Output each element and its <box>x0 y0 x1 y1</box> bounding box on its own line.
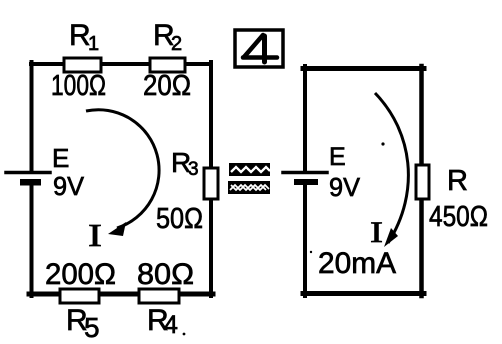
svg-text:1: 1 <box>88 33 99 55</box>
svg-text:3: 3 <box>188 159 199 180</box>
svg-text:5: 5 <box>84 312 100 343</box>
svg-text:E: E <box>329 143 346 171</box>
svg-text:80Ω: 80Ω <box>137 258 194 291</box>
svg-text:450Ω: 450Ω <box>429 201 488 233</box>
svg-text:9V: 9V <box>53 171 85 201</box>
svg-text:200Ω: 200Ω <box>45 258 116 291</box>
svg-text:50Ω: 50Ω <box>156 203 203 235</box>
svg-text:2: 2 <box>171 33 182 55</box>
svg-text:I: I <box>88 217 102 253</box>
svg-text:4: 4 <box>164 311 178 339</box>
svg-text:100Ω: 100Ω <box>51 70 106 102</box>
svg-text:R: R <box>447 165 468 197</box>
svg-text:I: I <box>370 216 383 249</box>
svg-text:20mA: 20mA <box>318 247 396 280</box>
svg-text:20Ω: 20Ω <box>143 70 191 102</box>
svg-text:E: E <box>52 143 69 173</box>
svg-text:9V: 9V <box>329 172 361 202</box>
